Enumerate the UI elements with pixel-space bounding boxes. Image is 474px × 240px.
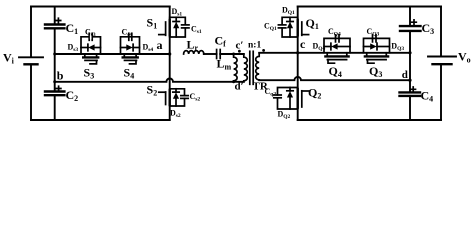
svg-text:c: c xyxy=(300,37,306,51)
transformer primary dot xyxy=(238,50,241,53)
wire left cells row xyxy=(55,53,170,55)
wire top rail left xyxy=(31,6,170,8)
snubber loop S2 xyxy=(170,89,185,106)
switch cell Q4 xyxy=(324,38,350,52)
diode Ds4 (points right) xyxy=(126,44,133,51)
switch cell S3 xyxy=(81,37,101,54)
junction dot Lm bottom xyxy=(232,80,235,83)
label CQ4 xyxy=(328,27,341,38)
node b xyxy=(57,69,64,83)
wire left outer vertical bottom xyxy=(30,65,32,120)
mosfet S3 xyxy=(83,54,98,64)
label d-prime xyxy=(235,80,244,92)
capacitor Cs3 (plates in top branch) xyxy=(89,33,92,40)
svg-text:d′: d′ xyxy=(235,80,244,92)
wire left mid vertical xyxy=(54,7,56,121)
diode DQ2 (points up) xyxy=(287,91,293,98)
node c label xyxy=(300,37,306,51)
junction dot b-row-bottom xyxy=(53,80,56,83)
svg-text:n:1: n:1 xyxy=(248,41,261,51)
transformer primary winding xyxy=(244,54,248,82)
label C2 xyxy=(66,88,79,103)
capacitor Cq2 xyxy=(274,95,281,98)
capacitor Cs4 xyxy=(129,33,132,40)
label Q4 xyxy=(329,64,342,79)
label Q1 xyxy=(306,16,319,31)
label TR xyxy=(253,81,269,93)
wire bottom rail left xyxy=(31,119,170,121)
wire right lower row (secondary bottom to d) xyxy=(259,77,410,80)
label C4 xyxy=(421,89,434,104)
diode DQ4 (points left) xyxy=(331,43,338,50)
junction dot right row xyxy=(408,51,411,54)
node d label xyxy=(402,69,408,81)
label Ds4 xyxy=(143,43,154,54)
junction dot node c xyxy=(296,51,299,54)
label n:1 xyxy=(248,41,261,51)
junction dot node a xyxy=(168,52,171,55)
svg-text:d: d xyxy=(402,69,408,81)
label Cs1 xyxy=(191,25,202,36)
wire top rail right xyxy=(298,6,441,8)
wire Q1 leg xyxy=(297,7,299,53)
capacitor C2 xyxy=(45,92,64,96)
capacitor Cs2 xyxy=(181,96,188,99)
capacitor CQ1 xyxy=(278,25,285,28)
wire S2 leg (node a to bottom rail) xyxy=(169,54,171,120)
label Cs3 xyxy=(85,28,96,39)
wire Cf to primary top xyxy=(220,53,244,55)
label CQ3 xyxy=(367,27,380,38)
label Vi xyxy=(3,51,15,66)
label Cs4 xyxy=(122,28,133,39)
wire left lower row (b to d') xyxy=(55,78,244,81)
label DQ2 xyxy=(278,109,291,120)
source Vi xyxy=(19,57,43,64)
label c-prime xyxy=(236,40,244,52)
label Ds2 xyxy=(170,108,181,119)
capacitor C4 xyxy=(400,92,421,96)
mosfet Q2 xyxy=(298,89,309,108)
label Ds1 xyxy=(172,7,183,18)
wire right outer vertical top xyxy=(440,7,442,57)
transformer secondary winding xyxy=(256,53,260,80)
mosfet Q3 xyxy=(365,53,388,63)
label DQ1 xyxy=(282,6,295,17)
switch cell Q3 xyxy=(364,38,390,52)
label S2 xyxy=(147,83,158,98)
capacitor CQ4 xyxy=(336,35,340,42)
label CQ1 xyxy=(264,22,277,33)
label C3 xyxy=(422,21,435,36)
label DQ3 xyxy=(391,42,404,53)
mosfet S4 xyxy=(123,54,138,64)
plus sign C1 xyxy=(56,18,61,23)
label Q2 xyxy=(308,86,321,101)
switch cell S4 xyxy=(121,37,140,54)
diode DQ3 (points right) xyxy=(370,43,377,50)
capacitor C1 xyxy=(45,25,64,29)
junction dot Lm top xyxy=(232,53,235,56)
mosfet Q1 xyxy=(298,20,309,36)
capacitor CQ3 xyxy=(373,35,377,42)
svg-text:c′: c′ xyxy=(236,40,244,52)
mosfet S1 xyxy=(159,20,170,36)
label Ds3 xyxy=(68,43,79,54)
inductor Lr xyxy=(184,51,204,54)
label C1 xyxy=(66,21,79,36)
capacitor Cs1 xyxy=(182,25,189,28)
label S3 xyxy=(84,66,95,81)
wire secondary top to node c and right cells row xyxy=(259,52,410,54)
label DQ4 xyxy=(313,42,326,53)
wire right mid vertical xyxy=(409,7,411,121)
wire Q2 leg xyxy=(297,53,299,120)
node a label xyxy=(157,38,163,52)
label S4 xyxy=(124,66,135,81)
plus sign C2 xyxy=(56,86,61,91)
mosfet S2 xyxy=(159,90,170,105)
label S1 xyxy=(147,16,158,31)
source Vo xyxy=(428,57,456,65)
snubber loop Q2 xyxy=(278,88,298,110)
transformer secondary dot xyxy=(262,49,265,52)
wire a to Lr handled by row; wire Lr to Cf xyxy=(204,53,217,55)
plus sign C3 xyxy=(412,20,417,25)
wire left outer vertical top xyxy=(30,7,32,58)
label Q3 xyxy=(369,64,382,79)
junction dot node d xyxy=(408,79,411,82)
diode Ds1 (points up) xyxy=(173,22,179,29)
label Lr xyxy=(187,38,199,53)
label Lm xyxy=(217,57,232,72)
inductor Lm xyxy=(234,54,238,82)
wire right outer vertical bottom xyxy=(440,64,442,120)
label Cq2 xyxy=(265,87,277,98)
diode Ds3 (points left) xyxy=(88,44,95,51)
diode Ds2 (points up) xyxy=(173,92,179,99)
mosfet Q4 xyxy=(325,53,348,63)
label Cs2 xyxy=(190,92,201,103)
svg-text:a: a xyxy=(157,38,163,52)
diode DQ1 (points up) xyxy=(287,22,293,29)
wire S1 leg (top rail to node a) xyxy=(169,7,171,55)
transformer core xyxy=(250,51,253,84)
capacitor C3 xyxy=(400,26,421,31)
snubber loop S1 xyxy=(170,17,186,37)
snubber loop Q1 xyxy=(282,17,298,37)
label Vo xyxy=(458,50,471,65)
junction dot b-row-top xyxy=(53,53,56,56)
capacitor Cf xyxy=(217,50,221,59)
wire bottom rail right xyxy=(298,119,441,121)
plus sign C4 xyxy=(411,87,416,92)
svg-text:b: b xyxy=(57,69,64,83)
label Cf xyxy=(215,34,227,49)
